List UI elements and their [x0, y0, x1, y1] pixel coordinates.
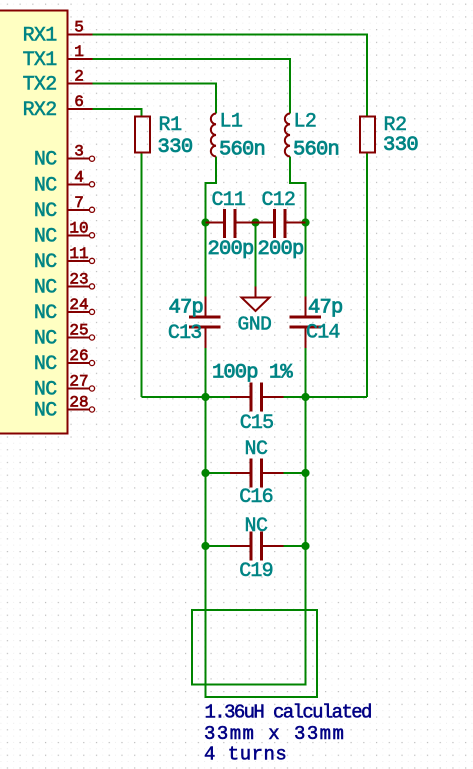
- svg-text:6: 6: [74, 93, 84, 111]
- svg-text:23: 23: [69, 270, 88, 288]
- svg-text:C15: C15: [240, 412, 274, 435]
- svg-text:R1: R1: [159, 114, 183, 137]
- svg-text:L2: L2: [294, 111, 317, 134]
- svg-text:NC: NC: [34, 276, 57, 299]
- svg-text:25: 25: [69, 322, 88, 340]
- svg-text:TX1: TX1: [23, 49, 58, 72]
- svg-text:200p: 200p: [208, 238, 254, 261]
- svg-text:10: 10: [69, 219, 88, 237]
- svg-text:NC: NC: [34, 200, 57, 223]
- svg-text:NC: NC: [34, 400, 57, 423]
- svg-text:3: 3: [74, 143, 84, 161]
- svg-text:C16: C16: [239, 486, 273, 509]
- svg-text:NC: NC: [34, 353, 57, 376]
- svg-text:NC: NC: [34, 302, 57, 325]
- svg-text:NC: NC: [34, 225, 57, 248]
- svg-text:24: 24: [69, 296, 88, 314]
- svg-text:27: 27: [69, 373, 88, 391]
- svg-text:RX1: RX1: [23, 25, 58, 48]
- svg-text:11: 11: [69, 245, 88, 263]
- svg-text:4 turns: 4 turns: [204, 743, 287, 765]
- svg-text:C13: C13: [168, 322, 202, 345]
- svg-text:560n: 560n: [293, 139, 339, 162]
- svg-text:5: 5: [74, 19, 84, 37]
- svg-text:200p: 200p: [258, 238, 304, 261]
- svg-text:NC: NC: [244, 438, 268, 461]
- svg-text:47p: 47p: [308, 297, 343, 320]
- svg-text:NC: NC: [244, 515, 268, 538]
- svg-text:330: 330: [158, 136, 193, 159]
- svg-text:100p 1%: 100p 1%: [212, 362, 293, 385]
- svg-text:33mm x 33mm: 33mm x 33mm: [204, 723, 345, 745]
- svg-text:C14: C14: [306, 322, 340, 345]
- svg-text:7: 7: [74, 194, 84, 212]
- svg-text:560n: 560n: [219, 139, 265, 162]
- svg-text:NC: NC: [34, 251, 57, 274]
- svg-text:NC: NC: [34, 328, 57, 351]
- svg-text:C11: C11: [212, 189, 246, 212]
- svg-text:2: 2: [74, 67, 84, 85]
- svg-text:TX2: TX2: [23, 73, 57, 96]
- svg-text:NC: NC: [34, 174, 57, 197]
- svg-text:1: 1: [74, 43, 84, 61]
- svg-text:28: 28: [69, 394, 88, 412]
- svg-text:330: 330: [383, 134, 418, 157]
- svg-text:4: 4: [74, 168, 84, 186]
- svg-text:C12: C12: [262, 189, 296, 212]
- svg-text:NC: NC: [34, 149, 57, 172]
- svg-text:1.36uH calculated: 1.36uH calculated: [205, 702, 372, 724]
- svg-text:26: 26: [69, 347, 88, 365]
- svg-text:NC: NC: [34, 379, 57, 402]
- svg-text:RX2: RX2: [23, 99, 57, 122]
- svg-text:47p: 47p: [168, 297, 203, 320]
- svg-text:L1: L1: [220, 111, 243, 134]
- svg-text:C19: C19: [239, 560, 273, 583]
- svg-text:GND: GND: [238, 314, 272, 336]
